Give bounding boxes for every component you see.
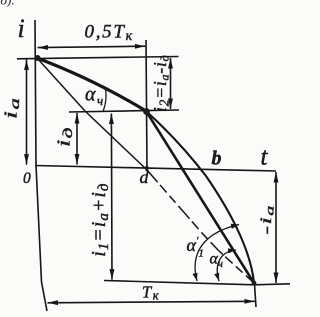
svg-text:о).: о). [1, 0, 15, 8]
svg-text:0: 0 [23, 170, 31, 187]
svg-text:i: i [18, 14, 25, 43]
svg-text:d: d [140, 167, 150, 187]
svg-text:t: t [261, 144, 269, 171]
svg-text:b: b [212, 148, 222, 170]
